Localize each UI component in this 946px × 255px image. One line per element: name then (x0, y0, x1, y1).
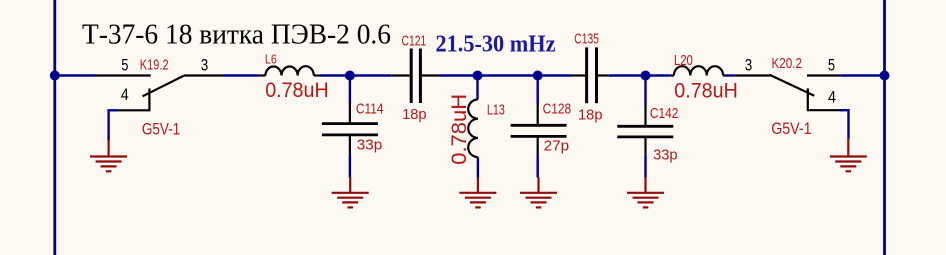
ground (L13) (459, 177, 496, 207)
svg-text:K20.2: K20.2 (772, 55, 803, 72)
wire right bus vertical (883, 0, 886, 255)
svg-text:K19.2: K19.2 (140, 56, 169, 73)
ground (K20.2) (830, 138, 867, 171)
svg-text:0.78uH: 0.78uH (674, 79, 738, 103)
svg-text:5: 5 (828, 56, 835, 75)
relay K20.2 (736, 75, 843, 110)
inductor L13 (468, 99, 478, 157)
svg-text:0.78uH: 0.78uH (265, 78, 329, 102)
node A (left bus junction) (50, 71, 60, 81)
ground (C128) (520, 177, 557, 207)
wire node D down to C128 (537, 76, 539, 105)
wire L13 to ground (477, 157, 479, 177)
wire node C to node D (478, 74, 538, 76)
svg-text:C121: C121 (402, 33, 427, 50)
wire C121 to node C (439, 74, 478, 76)
wire K19.2 pin 3 to L6 (223, 74, 258, 76)
wire C135 to node E (609, 74, 646, 76)
node F (right bus junction) (880, 71, 890, 81)
svg-text:C114: C114 (356, 101, 384, 118)
svg-text:21.5-30 mHz: 21.5-30 mHz (436, 31, 556, 58)
wire node B to C121 (350, 74, 392, 76)
svg-text:G5V-1: G5V-1 (142, 121, 180, 139)
capacitor C142 (617, 105, 673, 155)
svg-text:4: 4 (828, 87, 836, 106)
node D (533, 71, 543, 81)
wire C128 to ground (537, 155, 539, 178)
wire node E down to C142 (644, 76, 646, 106)
svg-text:4: 4 (121, 85, 129, 104)
ground (C114) (332, 177, 369, 207)
svg-text:L6: L6 (265, 52, 277, 67)
wire K20.2 pin 5 to right bus (840, 74, 884, 76)
svg-text:L13: L13 (487, 102, 505, 119)
wire L6 to node B (321, 74, 350, 76)
capacitor C114 (322, 103, 378, 154)
svg-text:27p: 27p (544, 138, 570, 155)
svg-text:5: 5 (121, 56, 128, 75)
svg-text:G5V-1: G5V-1 (771, 120, 811, 138)
svg-text:0.78uH: 0.78uH (447, 94, 471, 165)
ground (C142) (627, 177, 664, 207)
svg-text:18p: 18p (578, 107, 603, 124)
wire left bus vertical (53, 0, 56, 255)
inductor L6 (258, 66, 321, 75)
ground (K19.2) (90, 140, 127, 172)
wire node B down to C114 (349, 76, 351, 104)
svg-text:C135: C135 (574, 31, 599, 48)
capacitor C135 (572, 47, 609, 103)
svg-text:3: 3 (201, 56, 209, 75)
wire node C down to L13 (476, 76, 478, 100)
node E (641, 71, 651, 81)
inductor L20 (670, 66, 725, 75)
svg-text:Т-37-6 18 витка ПЭВ-2 0.6: Т-37-6 18 витка ПЭВ-2 0.6 (82, 19, 391, 51)
node C (473, 71, 483, 81)
svg-text:L20: L20 (674, 52, 693, 69)
svg-text:C128: C128 (543, 101, 572, 118)
wire node E to L20 (646, 74, 670, 76)
wire C114 to ground (349, 154, 351, 178)
svg-text:C142: C142 (650, 105, 679, 122)
node B (345, 71, 355, 81)
wire K19.2 pin 4 to ground (109, 110, 117, 140)
svg-text:3: 3 (745, 56, 753, 75)
wire L20 to K20.2 (725, 74, 736, 76)
svg-text:33p: 33p (357, 137, 383, 154)
wire left bus to K19.2 pin 5 (55, 74, 95, 76)
svg-text:18p: 18p (402, 106, 427, 123)
capacitor C121 (392, 49, 439, 104)
wire C142 to ground (644, 155, 646, 178)
wire node D to C135 (538, 74, 572, 76)
svg-text:33p: 33p (653, 147, 678, 164)
wire K20.2 pin 4 to ground (840, 110, 849, 138)
capacitor C128 (511, 104, 567, 156)
relay K19.2 (95, 76, 223, 111)
